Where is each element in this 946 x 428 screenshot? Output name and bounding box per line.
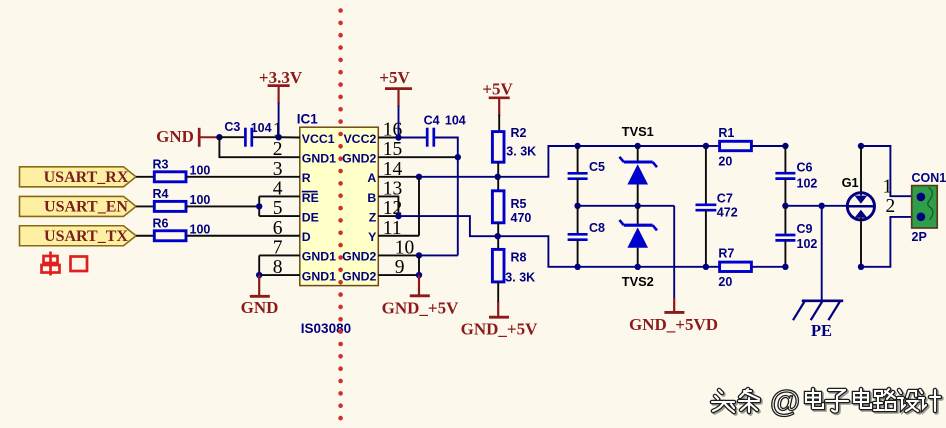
svg-text:CON1: CON1: [912, 171, 946, 185]
junction B-Z node: [395, 213, 401, 219]
svg-text:GND1: GND1: [302, 269, 336, 283]
wire R5 to R8: [497, 223, 499, 250]
connector CON1: [912, 186, 938, 228]
resistor R1: [706, 145, 720, 147]
ground GND_+5V (under R8): [497, 282, 499, 303]
wire R6 to pin 6: [186, 235, 300, 237]
svg-text:C8: C8: [589, 221, 605, 235]
svg-text:104: 104: [445, 114, 466, 128]
svg-text:@: @: [770, 384, 800, 419]
svg-text:R8: R8: [511, 251, 527, 265]
junction C5/C8 mid: [574, 203, 580, 209]
svg-text:Z: Z: [369, 210, 377, 224]
junction C7 bottom: [703, 264, 709, 270]
isolation barrier red dotted line: [338, 8, 343, 420]
svg-text:20: 20: [718, 155, 732, 169]
resistor R5: [497, 177, 499, 191]
ground GND (bottom left): [258, 275, 260, 295]
capacitor C4: [399, 137, 427, 139]
junction C9 bottom: [782, 264, 788, 270]
ground GND_+5V (under pin 9): [418, 275, 420, 295]
junction pin 10: [416, 252, 422, 258]
svg-text:VCC2: VCC2: [343, 132, 376, 146]
wire pin 14 stub (A): [378, 176, 419, 178]
junction pin 1 / +3.3V node: [275, 134, 281, 140]
junction R2/R5/A: [495, 174, 501, 180]
wire pin 12 stub (Z): [378, 215, 398, 217]
wire RE-DE tie (pins 4-5): [258, 196, 260, 216]
port USART_RX: [20, 167, 137, 187]
wire pin 9 stub: [378, 274, 419, 276]
svg-text:A: A: [367, 171, 376, 185]
junction C8 bottom: [574, 264, 580, 270]
svg-text:1: 1: [882, 177, 892, 198]
junction GND/C3 node: [216, 134, 222, 140]
svg-text:3. 3K: 3. 3K: [506, 145, 536, 159]
svg-text:2: 2: [885, 196, 895, 217]
svg-text:R3: R3: [153, 158, 169, 172]
svg-text:USART_RX: USART_RX: [44, 169, 129, 186]
svg-text:102: 102: [797, 176, 818, 190]
svg-text:GND_+5V: GND_+5V: [461, 319, 538, 338]
capacitor C3: [219, 136, 244, 138]
wire pin 16 stub: [378, 137, 398, 139]
svg-text:102: 102: [797, 237, 818, 251]
svg-text:3. 3K: 3. 3K: [505, 270, 535, 284]
svg-text:472: 472: [717, 205, 738, 219]
svg-text:D: D: [302, 230, 311, 244]
port USART_TX: [20, 226, 137, 246]
op-amp U1 : isolated transceiver IC1 ISO3080 body: [300, 127, 379, 285]
svg-text:VCC1: VCC1: [302, 132, 335, 146]
resistor R4: [136, 205, 154, 207]
RE active-low overline: [302, 191, 318, 193]
wire C3 to pin 1 node: [253, 136, 279, 138]
wire R4 to RE/DE tie: [186, 205, 259, 207]
wire bus+ step up: [498, 146, 706, 177]
svg-text:100: 100: [190, 163, 211, 177]
diode TVS2: [637, 206, 639, 225]
junction PE branch: [819, 203, 825, 209]
junction C5 top: [574, 143, 580, 149]
resistor R7: [706, 266, 720, 268]
junction R5/R8/Z: [495, 233, 501, 239]
junction TVS1/TVS2 mid: [635, 203, 641, 209]
svg-text:GND2: GND2: [342, 151, 376, 165]
wire PE mid rail: [785, 205, 847, 207]
capacitor C6: [784, 146, 786, 173]
capacitor C8: [577, 206, 579, 234]
svg-text:PE: PE: [811, 321, 832, 340]
watermark 头条@电子电路设计 (drawn strokes): [712, 390, 736, 414]
svg-text:C9: C9: [797, 222, 813, 236]
wire to pin 1: [279, 136, 300, 138]
svg-text:DE: DE: [302, 210, 319, 224]
ground GND_+5VD: [673, 206, 675, 299]
wire A-Y tie: [418, 177, 420, 236]
capacitor C9: [784, 206, 786, 235]
svg-text:C4: C4: [424, 114, 440, 128]
svg-text:R1: R1: [718, 126, 734, 140]
svg-text:R7: R7: [718, 247, 734, 261]
svg-text:20: 20: [718, 275, 732, 289]
label 串口 (serial port, drawn strokes): [42, 252, 88, 276]
capacitor C5: [577, 146, 579, 173]
wire pins 7-8 tie: [259, 254, 300, 256]
wire Z net to R5/R8 node: [398, 216, 497, 236]
svg-text:USART_EN: USART_EN: [44, 199, 128, 216]
svg-text:+5V: +5V: [379, 68, 410, 87]
earth PE symbol: [802, 299, 843, 302]
wire bus- to CON1 pin 2: [861, 217, 912, 267]
resistor R3: [136, 176, 154, 178]
svg-text:C6: C6: [797, 160, 813, 174]
svg-text:IC1: IC1: [297, 112, 319, 127]
wire pin 10 stub: [378, 254, 419, 256]
wire bus+ to CON1 pin 1: [861, 146, 912, 196]
svg-text:G1: G1: [842, 175, 859, 190]
resistor R2: [492, 132, 504, 163]
svg-text:C7: C7: [717, 191, 733, 205]
svg-text:USART_TX: USART_TX: [44, 228, 128, 245]
svg-text:GND2: GND2: [342, 250, 376, 264]
wire bus- step down: [498, 236, 706, 267]
svg-text:TVS2: TVS2: [622, 274, 654, 289]
junction A node: [416, 174, 422, 180]
svg-text:GND: GND: [156, 127, 194, 146]
junction pin 9: [416, 272, 422, 278]
svg-text:GND_+5VD: GND_+5VD: [629, 315, 718, 334]
svg-text:+3.3V: +3.3V: [259, 68, 303, 87]
svg-text:R: R: [302, 171, 311, 185]
svg-text:GND: GND: [241, 298, 279, 317]
svg-text:R4: R4: [153, 187, 169, 201]
port USART_EN: [20, 196, 137, 216]
wire pin 15 stub: [378, 156, 458, 158]
junction pin 15 node: [455, 154, 461, 160]
svg-text:GND1: GND1: [302, 151, 336, 165]
svg-text:Y: Y: [368, 230, 376, 244]
wire pin 13 stub (B) and B-Z tie: [378, 196, 398, 216]
svg-text:104: 104: [251, 121, 272, 135]
wire pin 10 to pin 9: [418, 255, 420, 275]
wire R7 to C9: [751, 266, 785, 268]
junction C6 top: [782, 143, 788, 149]
svg-text:470: 470: [511, 211, 532, 225]
resistor R8: [492, 249, 504, 282]
svg-text:GND2: GND2: [342, 269, 376, 283]
wire GND node to pin 2: [219, 137, 299, 157]
svg-text:R6: R6: [153, 216, 169, 230]
junction C6/C9 mid: [782, 203, 788, 209]
wire A net to R2/R5 node: [419, 176, 498, 178]
wire R1 to C6: [751, 145, 785, 147]
svg-text:R2: R2: [511, 126, 527, 140]
svg-text:RE: RE: [302, 191, 319, 205]
wire pin 11 stub (Y): [378, 235, 419, 237]
svg-text:IS03080: IS03080: [301, 321, 351, 336]
svg-text:100: 100: [190, 193, 211, 207]
svg-text:GND_+5V: GND_+5V: [382, 298, 459, 317]
svg-text:GND1: GND1: [302, 250, 336, 264]
svg-text:TVS1: TVS1: [622, 124, 654, 139]
svg-text:C5: C5: [589, 160, 605, 174]
svg-text:C3: C3: [224, 120, 240, 134]
wire to PE: [821, 206, 823, 300]
svg-text:R5: R5: [511, 197, 527, 211]
junction pins 4/5 tie: [256, 203, 262, 209]
wire GND2 vertical to pin 10 row: [457, 157, 459, 255]
resistor R6: [136, 235, 154, 237]
junction C7 top: [703, 143, 709, 149]
svg-text:2P: 2P: [912, 230, 927, 244]
wire R3 to pin 3: [186, 176, 300, 178]
svg-text:100: 100: [190, 222, 211, 236]
junction pin 16 node: [395, 134, 401, 140]
wire C4 to GND2 net: [435, 138, 458, 158]
svg-text:+5V: +5V: [482, 80, 513, 99]
junction pins 7/8: [256, 272, 262, 278]
capacitor C7: [705, 146, 707, 204]
wire isolated mid rail: [578, 205, 675, 207]
wire R2 to A node: [497, 162, 499, 177]
svg-text:B: B: [367, 191, 376, 205]
